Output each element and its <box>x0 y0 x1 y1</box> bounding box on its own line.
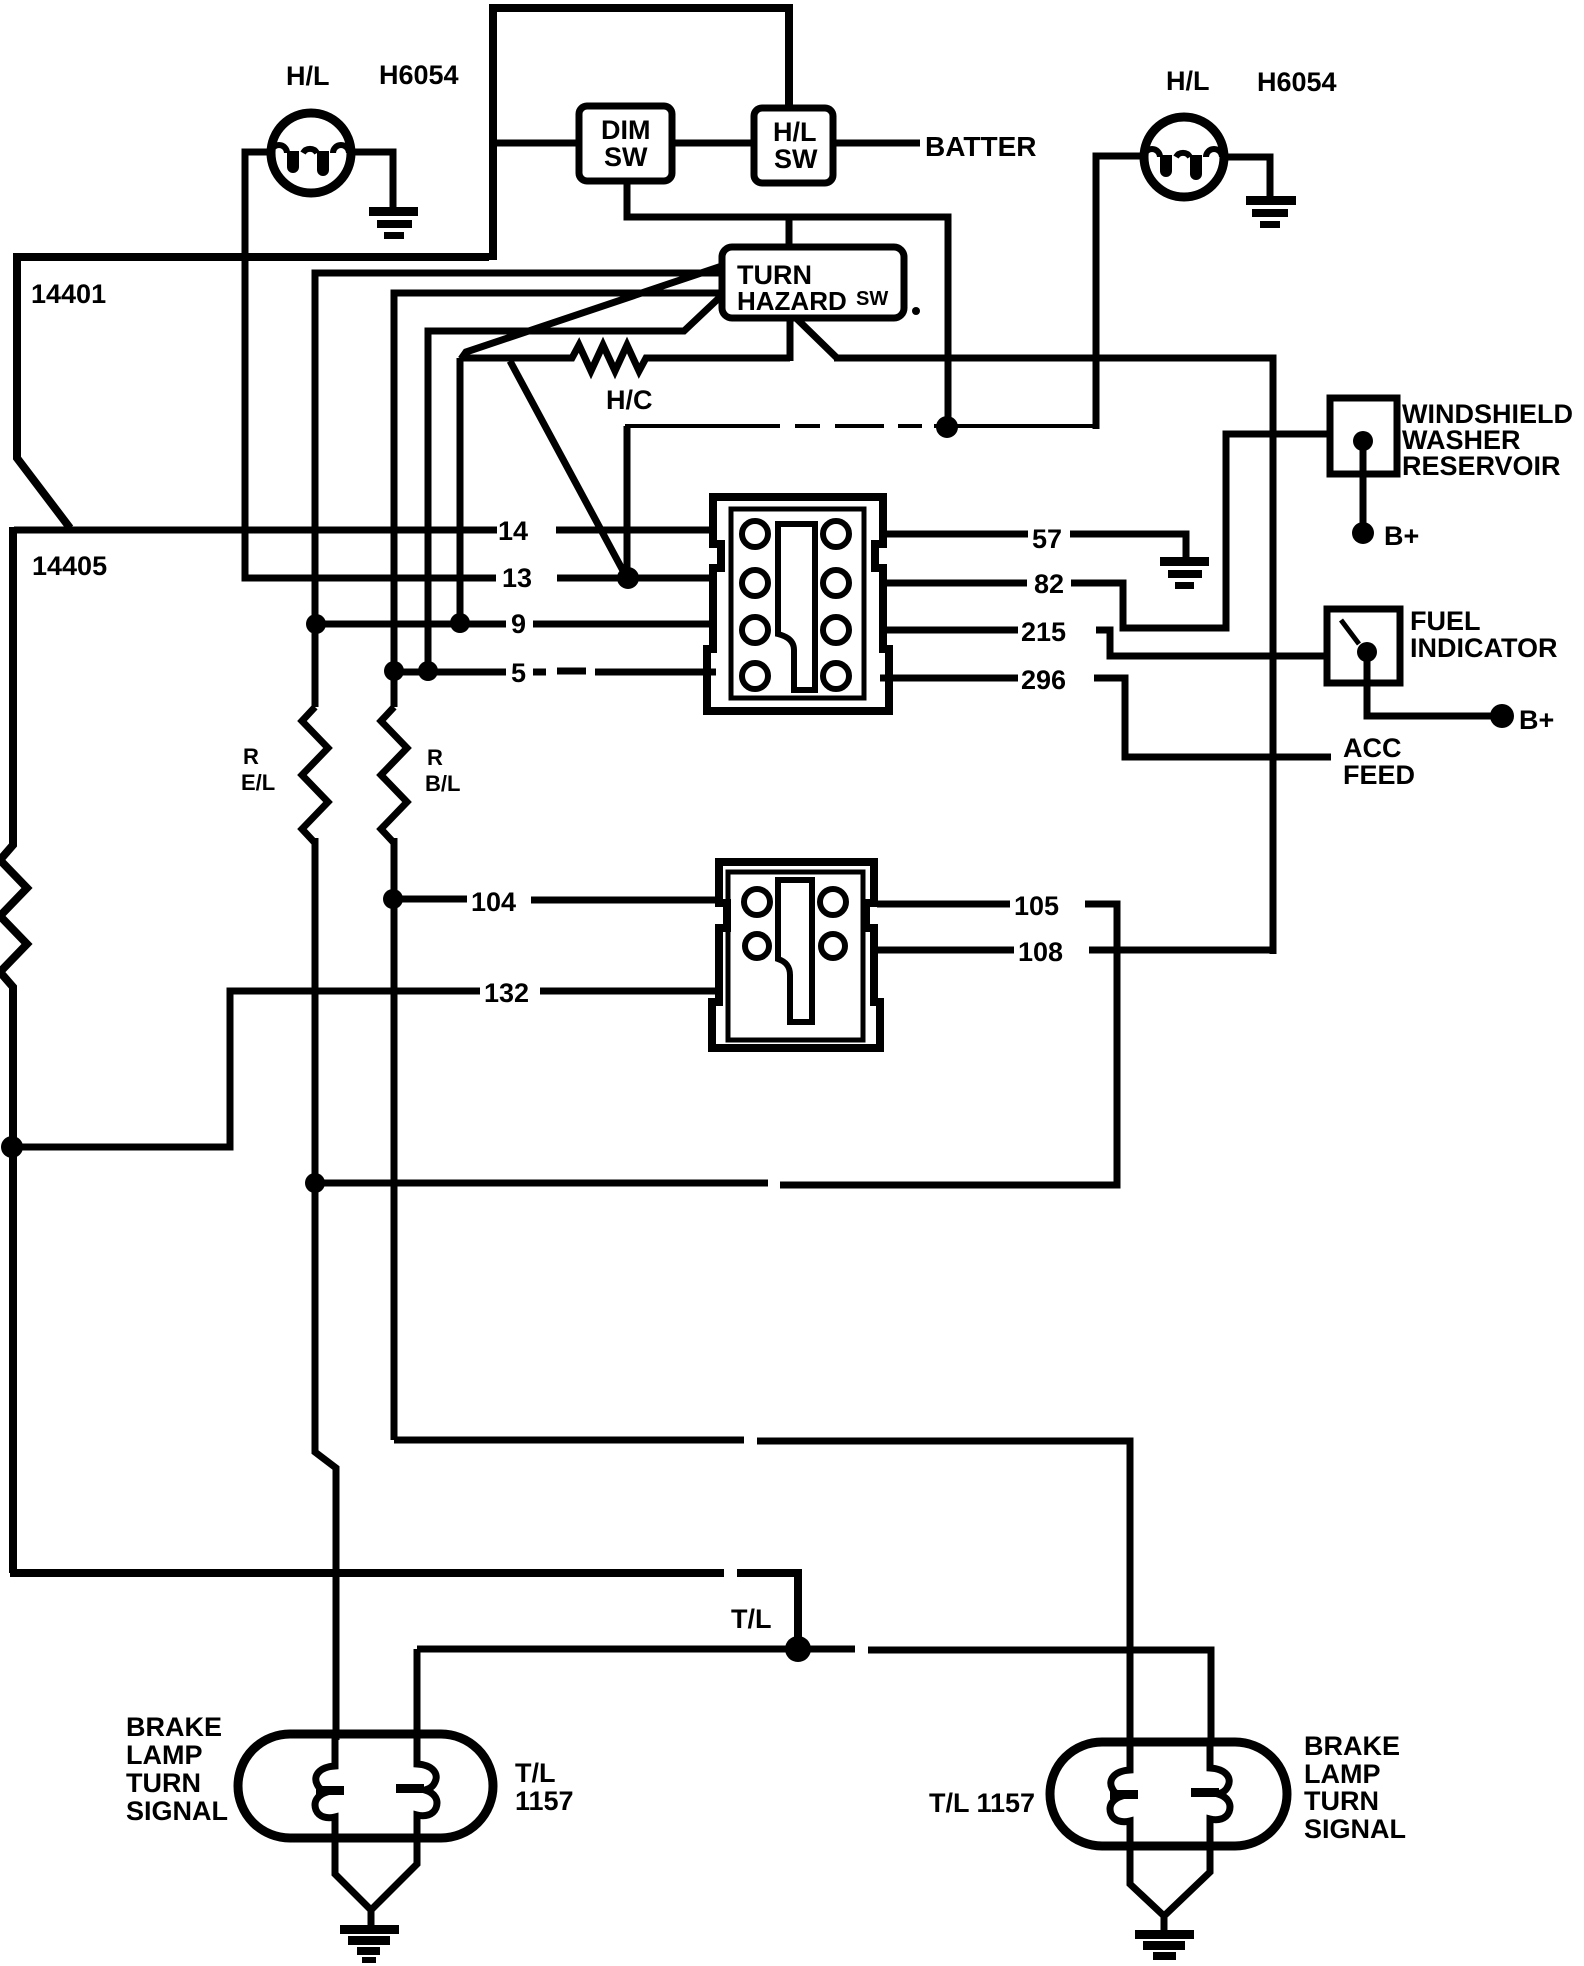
pin 296 connector C1 <box>823 663 849 689</box>
filament of right H/L lamp <box>1144 149 1222 180</box>
wire R E/L lower <box>315 838 336 1740</box>
node junction line 9 at R E/L <box>306 614 326 634</box>
svg-text:R: R <box>427 745 443 770</box>
filament left lamp left <box>315 1734 344 1838</box>
svg-text:LAMP: LAMP <box>126 1740 203 1770</box>
wire line 57 to ground <box>1070 534 1186 558</box>
connector C2 inner shell <box>728 872 863 1040</box>
svg-text:SW: SW <box>604 142 648 172</box>
wire line 108 to hazard feed <box>1089 947 1273 954</box>
ground line 57 <box>1160 557 1209 589</box>
wire T/L line right part <box>868 1650 1211 1742</box>
wire right lamp base V <box>1130 1846 1163 1915</box>
wire top feed loop <box>493 8 789 260</box>
connector C1 key slot <box>778 524 815 690</box>
svg-text:H6054: H6054 <box>1257 67 1337 97</box>
wire left lamp base V right <box>371 1838 417 1927</box>
wire DIM SW to H/L SW <box>672 140 754 147</box>
lamp H/L right (H6054) <box>1144 117 1224 197</box>
node B+ washer <box>1352 522 1374 544</box>
wire T/L line <box>417 1646 855 1653</box>
lamp H/L left (H6054) <box>271 113 351 193</box>
wire hazard feed to 108 <box>834 358 1273 954</box>
pin lower-left connector C2 <box>745 934 769 958</box>
wire fuel to B+ <box>1367 658 1494 716</box>
lamp brake/turn right (1157) <box>1050 1742 1287 1846</box>
pin 57 connector C1 <box>823 521 849 547</box>
svg-text:5: 5 <box>511 658 526 688</box>
resistor 14405 left harness <box>0 527 27 1573</box>
wire feed y331 with wiper diagonal <box>428 297 720 672</box>
svg-text:215: 215 <box>1021 617 1066 647</box>
svg-text:14: 14 <box>498 516 528 546</box>
wire line 9 <box>316 621 506 628</box>
svg-text:T/L 1157: T/L 1157 <box>929 1788 1035 1818</box>
node period mark after SW <box>912 307 920 315</box>
wire line 5 <box>394 669 506 676</box>
wire 14401 harness outline <box>17 257 489 528</box>
wire right lamp left lead <box>1096 156 1146 429</box>
svg-text:104: 104 <box>471 887 516 917</box>
wire dashed feed to right lamp <box>625 424 1096 428</box>
svg-text:BRAKE: BRAKE <box>126 1712 222 1742</box>
svg-text:T/L: T/L <box>515 1758 556 1788</box>
wire line 14 (14405 harness top) <box>14 527 497 534</box>
resistor R B/L <box>381 707 407 843</box>
wire line 296 to acc feed <box>1094 678 1331 757</box>
pin 105 connector C2 <box>820 889 846 915</box>
wire right lamp right lead <box>1223 157 1270 196</box>
ground left H/L lamp <box>369 207 418 239</box>
ground left lamp <box>340 1925 399 1963</box>
svg-text:132: 132 <box>484 978 529 1008</box>
node junction T/L <box>785 1636 811 1662</box>
wire line 104 <box>393 896 467 903</box>
lamp brake/turn left (1157) <box>238 1734 493 1838</box>
wire H/L SW to BATTER <box>833 140 920 147</box>
switch stroke fuel indicator <box>1341 620 1359 644</box>
wire line 105 return loop <box>780 904 1117 1185</box>
box fuel indicator <box>1327 609 1400 683</box>
wire feed y273 <box>315 273 722 707</box>
filament right lamp left <box>1110 1742 1138 1846</box>
pin 9 connector C1 <box>742 617 768 643</box>
pin 14 connector C1 <box>742 521 768 547</box>
svg-text:B+: B+ <box>1519 705 1554 735</box>
node junction R E/L to 105 return <box>305 1173 325 1193</box>
wire left lamp right leg riser <box>414 1649 421 1740</box>
filament right lamp right <box>1191 1742 1230 1846</box>
svg-text:108: 108 <box>1018 937 1063 967</box>
svg-text:H/L: H/L <box>286 61 330 91</box>
node junction line 9 at H/C branch <box>450 613 470 633</box>
wire line 57 <box>880 531 1028 538</box>
node junction dim feed <box>936 416 958 438</box>
svg-text:B+: B+ <box>1384 521 1419 551</box>
wire line 105 <box>877 901 1010 908</box>
wire DIM SW output <box>627 181 948 427</box>
svg-text:T/L: T/L <box>731 1604 772 1634</box>
svg-text:RESERVOIR: RESERVOIR <box>1402 451 1561 481</box>
svg-text:TURN: TURN <box>1304 1786 1379 1816</box>
resistor R E/L <box>302 707 328 843</box>
wire diagonal to line 13 junction <box>510 361 628 580</box>
wire 14405 harness bottom run continued <box>737 1573 798 1645</box>
wire H/C to turn switch bottom <box>787 318 794 361</box>
wire line 82 <box>880 580 1027 587</box>
wire line 108 <box>877 947 1014 954</box>
node junction R B/L line 104 <box>383 889 403 909</box>
wire left lamp right lead <box>350 152 393 208</box>
svg-text:TURN: TURN <box>126 1768 201 1798</box>
svg-text:E/L: E/L <box>241 770 275 795</box>
node washer terminal <box>1353 431 1373 451</box>
pin 5 connector C1 <box>742 663 768 689</box>
connector C1 inner shell <box>731 509 864 698</box>
svg-text:R: R <box>243 744 259 769</box>
svg-text:14401: 14401 <box>31 279 106 309</box>
pin 13 connector C1 <box>742 570 768 596</box>
svg-text:1157: 1157 <box>515 1786 574 1816</box>
svg-text:SIGNAL: SIGNAL <box>126 1796 228 1826</box>
wire feed y293 <box>394 293 722 707</box>
svg-text:BATTER: BATTER <box>925 131 1036 162</box>
switch TURN HAZARD SW <box>722 247 904 318</box>
connector C1 outer shell <box>707 497 889 711</box>
node fuel terminal <box>1357 642 1377 662</box>
wire R B/L to right lamp continued <box>757 1441 1130 1742</box>
wire washer to B+ <box>1360 448 1367 524</box>
wire turn switch wiper diagonal upper <box>461 266 722 359</box>
svg-text:296: 296 <box>1021 665 1066 695</box>
ground right H/L lamp <box>1246 196 1296 228</box>
wire line 5 dashes and right half <box>533 671 716 672</box>
svg-text:BRAKE: BRAKE <box>1304 1731 1400 1761</box>
wire line 132 <box>10 991 480 1147</box>
svg-text:H6054: H6054 <box>379 60 459 90</box>
svg-text:57: 57 <box>1032 524 1062 554</box>
pin 104 connector C2 <box>744 889 770 915</box>
wire right lamp base V right <box>1164 1846 1210 1932</box>
connector C2 outer shell <box>712 862 880 1048</box>
svg-text:82: 82 <box>1034 569 1064 599</box>
ground right lamp <box>1135 1930 1194 1960</box>
switch H/L SW <box>754 108 833 183</box>
svg-text:SW: SW <box>856 288 888 310</box>
wire line 9 right half <box>533 621 716 628</box>
wire line 296 <box>880 675 1018 682</box>
node junction left harness <box>1 1136 23 1158</box>
wire line 14 right half <box>556 527 716 534</box>
wire line 13 right half <box>557 575 716 582</box>
pin 82 connector C1 <box>823 570 849 596</box>
svg-text:HAZARD: HAZARD <box>737 286 847 316</box>
resistor H/C <box>461 345 790 371</box>
wire line 104 right half <box>531 897 722 904</box>
wire 14405 harness bottom run <box>10 1569 724 1577</box>
svg-text:B/L: B/L <box>425 771 460 796</box>
node junction line 5 at R B/L <box>384 661 404 681</box>
svg-text:13: 13 <box>502 563 532 593</box>
node junction line 5 at y331 branch <box>418 661 438 681</box>
wire turn switch bottom wiper <box>797 319 838 359</box>
svg-text:ACC: ACC <box>1343 733 1402 763</box>
wire line 215 <box>880 627 1018 634</box>
node junction on line 13 <box>617 567 639 589</box>
wire 105 return left part <box>316 1180 768 1187</box>
svg-text:H/L: H/L <box>1166 66 1210 96</box>
filament left lamp right <box>396 1734 437 1838</box>
svg-text:9: 9 <box>511 609 526 639</box>
svg-text:DIM: DIM <box>601 115 651 145</box>
pin lower-right connector C2 <box>821 934 845 958</box>
wire R B/L to right lamp <box>394 1437 744 1444</box>
svg-text:105: 105 <box>1014 891 1059 921</box>
node B+ fuel <box>1490 704 1514 728</box>
svg-text:H/L: H/L <box>773 117 817 147</box>
svg-text:14405: 14405 <box>32 551 107 581</box>
wire left lamp to line 13 <box>245 152 496 578</box>
wire H/C branch left vertical <box>457 358 464 623</box>
svg-text:FUEL: FUEL <box>1410 606 1481 636</box>
svg-text:H/C: H/C <box>606 385 653 415</box>
svg-text:SW: SW <box>774 144 818 174</box>
box windshield washer reservoir <box>1330 398 1397 474</box>
svg-text:SIGNAL: SIGNAL <box>1304 1814 1406 1844</box>
wire line 215 to fuel indicator <box>1096 630 1327 656</box>
filament of left H/L lamp <box>271 145 349 176</box>
svg-text:FEED: FEED <box>1343 760 1415 790</box>
pin 215 connector C1 <box>823 617 849 643</box>
wire line 132 right half <box>540 988 722 995</box>
connector C2 key slot <box>778 880 812 1022</box>
wire line 13 junction riser <box>624 426 631 578</box>
svg-text:LAMP: LAMP <box>1304 1759 1381 1789</box>
wire left lamp base V <box>335 1838 370 1909</box>
switch DIM SW <box>579 106 672 181</box>
svg-text:INDICATOR: INDICATOR <box>1410 633 1558 663</box>
wire R B/L lower <box>391 838 398 1440</box>
wire turn switch top pin <box>786 217 793 250</box>
wire line 82 to washer reservoir <box>1071 434 1330 628</box>
wire to DIM SW <box>493 140 579 147</box>
